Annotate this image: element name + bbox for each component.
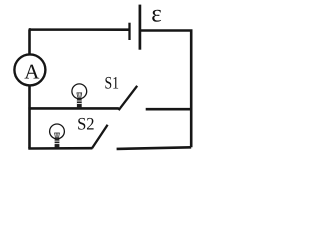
svg-text:S2: S2: [77, 114, 95, 134]
svg-text:A: A: [24, 59, 40, 83]
svg-text:S1: S1: [105, 72, 120, 92]
svg-text:ε: ε: [151, 0, 162, 27]
